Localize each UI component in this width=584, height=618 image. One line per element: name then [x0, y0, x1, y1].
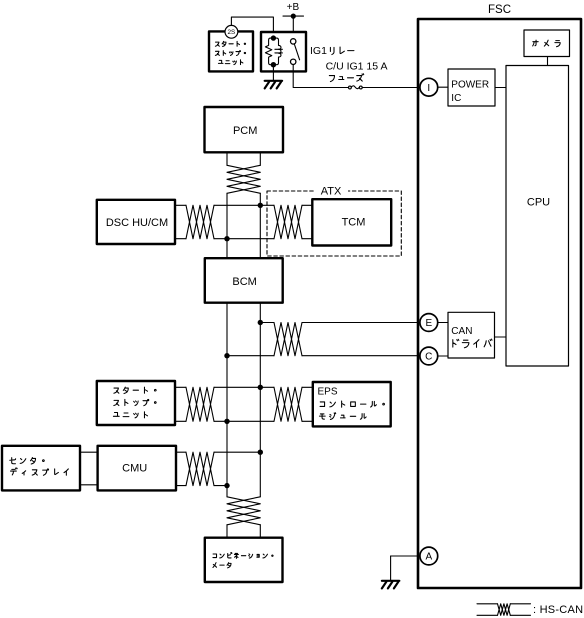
- svg-text:BCM: BCM: [232, 276, 256, 288]
- wire CAN driver to CPU: [495, 336, 507, 338]
- svg-text:EPS: EPS: [318, 387, 338, 398]
- BCM box: [205, 258, 283, 303]
- svg-text:CAN: CAN: [451, 326, 472, 337]
- wire 2S to relay coil: [231, 17, 273, 36]
- fuse C/U IG1 15A: [349, 86, 363, 89]
- terminal A: [420, 547, 438, 565]
- twisted pair CMU to bus (CAN-H): [176, 452, 260, 485]
- junction dot bus L / SS-EPS: [224, 419, 229, 424]
- relay coil with parallel resistor: [265, 38, 282, 65]
- junction dot bus H / DSC-TCM: [258, 203, 263, 208]
- start-stop unit box (top): [209, 31, 253, 71]
- svg-text:IC: IC: [451, 93, 461, 104]
- twisted pair DSC to bus (CAN-L): [175, 238, 274, 240]
- legend label HS-CAN: [533, 604, 583, 616]
- wire terminal I to inner box: [438, 86, 448, 88]
- TCM box: [312, 199, 391, 245]
- svg-text:CMU: CMU: [122, 463, 147, 475]
- ATX dashed boundary: [267, 186, 401, 257]
- junction dot relay coil top: [271, 35, 276, 40]
- wire terminal C to inner box: [438, 355, 448, 357]
- IG1 relay box: [261, 32, 306, 71]
- +B battery feed: [283, 2, 304, 19]
- POWER IC box U-power: [448, 69, 495, 106]
- CAN bus right rail (lower): [259, 303, 261, 497]
- junction dot bus L / C branch: [224, 353, 229, 358]
- junction dot bus H / CMU: [258, 450, 263, 455]
- svg-text:: HS-CAN: : HS-CAN: [533, 604, 583, 616]
- DSC HU/CM box: [97, 200, 175, 244]
- label IG1 relay: [310, 45, 354, 57]
- wire fuse to terminal I: [362, 87, 420, 89]
- wire terminal E to inner box: [438, 322, 448, 324]
- CMU box: [98, 446, 176, 491]
- combination meter box: [205, 538, 283, 582]
- connector 2S: [225, 25, 238, 38]
- wire relay switch to fuse: [293, 65, 348, 88]
- svg-text:E: E: [425, 318, 432, 329]
- camera box: [524, 30, 570, 57]
- relay switch contacts: [291, 39, 300, 65]
- twisted pair bus to TCM: [274, 205, 312, 238]
- twisted pair bus to combination meter: [227, 497, 260, 538]
- twisted pair PCM to bus: [227, 152, 260, 193]
- svg-text:DSC HU/CM: DSC HU/CM: [106, 217, 168, 229]
- svg-text:CPU: CPU: [527, 196, 550, 208]
- legend HS-CAN twisted pair symbol: [477, 604, 531, 616]
- twisted pair start-stop to bus (CAN-L): [175, 420, 274, 422]
- wire terminal A to inner box: [391, 555, 420, 557]
- CPU box: [506, 66, 569, 367]
- svg-text:TCM: TCM: [342, 217, 366, 229]
- CAN bus left rail (lower): [226, 303, 228, 497]
- PCM box: [205, 107, 284, 152]
- twisted pair bus to EPS: [274, 387, 313, 421]
- CAN bus right rail (upper): [259, 193, 261, 258]
- junction dot relay coil bottom: [271, 62, 276, 67]
- wire +B to relay switch: [292, 16, 294, 38]
- svg-text:IG1: IG1: [310, 45, 327, 57]
- terminal I: [420, 78, 438, 96]
- ground (relay coil): [265, 65, 282, 89]
- wire bus to terminal C (CAN-L): [227, 355, 420, 357]
- svg-text:I: I: [427, 83, 430, 94]
- svg-text:2S: 2S: [228, 29, 236, 36]
- FSC module box: [418, 19, 581, 588]
- junction dot bus H / SS-EPS: [258, 385, 263, 390]
- svg-text:ATX: ATX: [321, 186, 342, 198]
- CAN driver box: [448, 312, 495, 358]
- svg-text:C/U IG1 15 A: C/U IG1 15 A: [326, 61, 388, 73]
- twisted pair CMU to bus (CAN-L): [176, 485, 227, 487]
- svg-text:+B: +B: [287, 2, 300, 13]
- CAN bus left rail (upper): [226, 193, 228, 258]
- center display box: [2, 446, 80, 491]
- wire POWER IC to CPU: [495, 87, 506, 89]
- start-stop unit box (lower): [97, 381, 175, 425]
- junction dot bus H / E branch: [258, 320, 263, 325]
- svg-text:PCM: PCM: [233, 125, 257, 137]
- ground (FSC terminal A): [382, 556, 399, 588]
- EPS control module box: [313, 382, 391, 426]
- wire camera to CPU: [547, 57, 549, 66]
- wire bus to terminal E (CAN-H): [260, 323, 420, 356]
- label C/U IG1 15 A fuse: [326, 61, 388, 82]
- wire center display to CMU (pair): [80, 452, 98, 485]
- svg-text:FSC: FSC: [488, 4, 511, 16]
- terminal E: [420, 314, 438, 332]
- svg-text:A: A: [425, 552, 432, 563]
- twisted pair start-stop to bus (CAN-H): [175, 387, 274, 421]
- svg-text:POWER: POWER: [451, 79, 489, 90]
- junction dot bus L / CMU: [224, 483, 229, 488]
- svg-text:C: C: [425, 352, 432, 363]
- twisted pair DSC to bus (CAN-H): [175, 205, 274, 238]
- terminal C: [420, 347, 438, 365]
- junction dot bus L / DSC-TCM: [224, 236, 229, 241]
- label FSC: [488, 4, 511, 16]
